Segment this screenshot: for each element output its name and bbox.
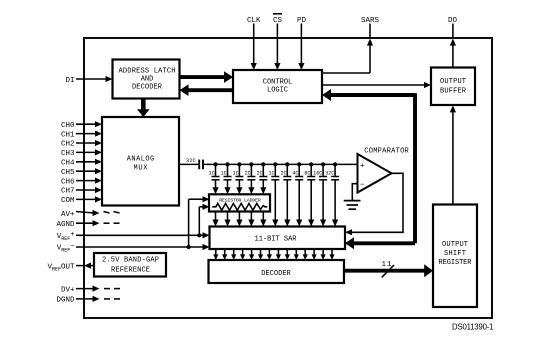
svg-text:AND: AND bbox=[141, 76, 154, 84]
node cap bus junction 3 bbox=[237, 162, 241, 166]
svg-text:CH2: CH2 bbox=[61, 141, 75, 149]
svg-text:CH7: CH7 bbox=[61, 188, 75, 196]
node cap bus junction 11 bbox=[333, 162, 337, 166]
wire SAR to DECODER bit 6 bbox=[258, 249, 263, 260]
bus CONTROL LOGIC / 11-BIT SAR bidirectional (thick) bbox=[322, 89, 415, 249]
node cap bus junction 8 bbox=[297, 162, 301, 166]
capacitor 4C (column 8) bbox=[292, 164, 303, 226]
pin CH4 bbox=[61, 159, 102, 168]
wire SAR to DECODER bit 3 bbox=[231, 249, 236, 260]
svg-text:LOGIC: LOGIC bbox=[267, 86, 288, 94]
svg-text:CONTROL: CONTROL bbox=[263, 78, 293, 86]
bus ADDRESS LATCH to ANALOG MUX (thick down arrow) bbox=[137, 99, 150, 118]
pin CH1 bbox=[61, 131, 102, 140]
svg-text:32C: 32C bbox=[186, 157, 197, 164]
svg-text:REFERENCE: REFERENCE bbox=[111, 267, 150, 275]
svg-text:2.5V BAND-GAP: 2.5V BAND-GAP bbox=[102, 257, 159, 265]
pin PD bbox=[297, 17, 307, 70]
svg-text:1C: 1C bbox=[268, 170, 274, 176]
svg-text:ANALOG: ANALOG bbox=[127, 156, 155, 164]
svg-text:DS011390-1: DS011390-1 bbox=[452, 323, 494, 332]
wire VREF- to resistor ladder upper input bbox=[189, 196, 210, 247]
capacitor 1C (column 2) bbox=[221, 164, 232, 194]
wire SAR to DECODER bit 5 bbox=[249, 249, 254, 260]
svg-text:2C: 2C bbox=[245, 170, 251, 176]
bus CONTROL LOGIC to ADDRESS LATCH (thick left arrow) bbox=[180, 84, 234, 96]
svg-text:AV+: AV+ bbox=[61, 211, 75, 219]
block DECODER bbox=[209, 260, 345, 283]
svg-text:MUX: MUX bbox=[134, 165, 149, 173]
svg-text:AGND: AGND bbox=[56, 221, 75, 229]
block RESISTOR LADDER bbox=[209, 194, 270, 211]
wire SAR to DECODER bit 1 bbox=[213, 249, 218, 260]
bus ADDRESS LATCH to CONTROL LOGIC (thick right arrow) bbox=[180, 71, 234, 83]
wire resistor ladder to SAR (column 3) bbox=[236, 212, 242, 227]
capacitor 8C (column 9) bbox=[304, 164, 315, 226]
pin SARS bbox=[361, 17, 380, 73]
wire OUTPUT SHIFT REGISTER to OUTPUT BUFFER bbox=[450, 105, 456, 204]
svg-text:−: − bbox=[360, 182, 365, 190]
pin VREF+ bbox=[57, 231, 210, 242]
pin DO bbox=[448, 17, 458, 68]
svg-text:4C: 4C bbox=[292, 170, 298, 176]
wire SAR to DECODER bit 4 bbox=[240, 249, 245, 260]
node cap bus junction 5 bbox=[261, 162, 265, 166]
svg-text:ADDRESS LATCH: ADDRESS LATCH bbox=[119, 68, 176, 76]
svg-text:CH3: CH3 bbox=[61, 150, 75, 158]
wire CONTROL LOGIC to OUTPUT BUFFER bbox=[322, 82, 431, 88]
wire resistor ladder to SAR (column 2) bbox=[224, 212, 230, 227]
capacitor 32C (series) bbox=[186, 157, 203, 169]
wire SAR to DECODER bit 2 bbox=[222, 249, 227, 260]
capacitor 2C (column 4) bbox=[245, 164, 256, 194]
svg-text:1C: 1C bbox=[233, 170, 239, 176]
block OUTPUT BUFFER bbox=[431, 68, 475, 106]
node cap bus junction 6 bbox=[273, 162, 277, 166]
wire comparator output to 11-BIT SAR bbox=[345, 173, 403, 235]
capacitor 32C (column 11) bbox=[325, 164, 339, 226]
svg-text:DI: DI bbox=[65, 77, 74, 85]
wire VREF+ to resistor ladder lower input bbox=[199, 204, 209, 236]
wire SAR to DECODER bit 10 bbox=[294, 249, 299, 260]
node cap bus junction 4 bbox=[249, 162, 253, 166]
pin VREF- bbox=[57, 243, 210, 254]
pin CH3 bbox=[61, 149, 102, 158]
svg-text:8C: 8C bbox=[304, 170, 310, 176]
pin COM bbox=[61, 196, 102, 205]
svg-text:CH0: CH0 bbox=[61, 122, 75, 130]
capacitor 16C (column 10) bbox=[313, 164, 327, 226]
svg-text:1C: 1C bbox=[209, 170, 215, 176]
svg-text:11-BIT SAR: 11-BIT SAR bbox=[255, 236, 298, 244]
capacitor 2C (column 7) bbox=[280, 164, 291, 226]
block OUTPUT SHIFT REGISTER bbox=[433, 205, 477, 308]
svg-text:REGISTER: REGISTER bbox=[439, 259, 473, 267]
block 2.5V BAND-GAP REFERENCE bbox=[94, 253, 166, 277]
svg-text:SHIFT: SHIFT bbox=[444, 250, 466, 258]
node cap bus junction 7 bbox=[285, 162, 289, 166]
svg-text:CH1: CH1 bbox=[61, 131, 75, 139]
svg-text:DV+: DV+ bbox=[61, 286, 75, 294]
svg-text:COM: COM bbox=[61, 197, 75, 205]
svg-text:DECODER: DECODER bbox=[261, 270, 291, 278]
block 11-BIT SAR bbox=[210, 227, 346, 250]
pin CLK bbox=[247, 17, 261, 70]
chip boundary bbox=[84, 38, 492, 318]
wire SAR to DECODER bit 8 bbox=[276, 249, 281, 260]
wire SAR to DECODER bit 14 bbox=[329, 249, 334, 260]
pin CH2 bbox=[61, 140, 102, 149]
wire capacitor bus bbox=[204, 163, 358, 165]
svg-text:DGND: DGND bbox=[56, 297, 75, 305]
svg-text:CH4: CH4 bbox=[61, 160, 75, 168]
pin CH0 bbox=[61, 121, 102, 130]
pin CH5 bbox=[61, 168, 102, 177]
pin DGND bbox=[56, 296, 120, 305]
pin AGND bbox=[56, 220, 119, 229]
node VREF- junction bbox=[187, 245, 191, 249]
node cap bus junction 2 bbox=[225, 162, 229, 166]
svg-text:OUTPUT: OUTPUT bbox=[440, 78, 466, 86]
pin VREFOUT bbox=[47, 263, 94, 273]
block CONTROL LOGIC bbox=[233, 70, 322, 103]
wire SAR to DECODER bit 7 bbox=[267, 249, 272, 260]
pin CS (active low) bbox=[273, 14, 283, 70]
svg-text:COMPARATOR: COMPARATOR bbox=[364, 147, 409, 155]
wire SAR to DECODER bit 13 bbox=[321, 249, 326, 260]
capacitor 1C (column 3) bbox=[233, 164, 244, 194]
node VREF+ junction bbox=[197, 233, 201, 237]
wire SAR to DECODER bit 12 bbox=[312, 249, 317, 260]
capacitor 1C (column 1) bbox=[209, 164, 220, 194]
wire ANALOG MUX output bbox=[179, 163, 198, 165]
wire CONTROL LOGIC to SARS bbox=[322, 72, 370, 74]
svg-text:BUFFER: BUFFER bbox=[440, 88, 467, 96]
wire SAR to DECODER bit 9 bbox=[285, 249, 290, 260]
pin CH7 bbox=[61, 187, 102, 196]
svg-text:CH6: CH6 bbox=[61, 178, 75, 186]
svg-text:32C: 32C bbox=[325, 170, 334, 176]
svg-text:1C: 1C bbox=[221, 170, 227, 176]
block ADDRESS LATCH AND DECODER bbox=[113, 60, 180, 99]
wire resistor ladder to SAR (column 5) bbox=[260, 212, 266, 227]
node cap bus junction 1 bbox=[213, 162, 217, 166]
comparator U1 bbox=[358, 147, 410, 192]
bus DECODER to OUTPUT SHIFT REGISTER (11) bbox=[344, 261, 433, 277]
node cap bus junction 10 bbox=[321, 162, 325, 166]
block ANALOG MUX bbox=[102, 117, 179, 206]
svg-text:DECODER: DECODER bbox=[132, 84, 163, 92]
capacitor 2C (column 5) bbox=[256, 164, 267, 194]
ground (comparator negative input) bbox=[344, 184, 361, 210]
pin DI bbox=[65, 76, 112, 85]
svg-text:2C: 2C bbox=[256, 170, 262, 176]
svg-text:+: + bbox=[360, 163, 365, 171]
pin AV+ bbox=[61, 210, 120, 219]
wire SAR to DECODER bit 11 bbox=[303, 249, 308, 260]
svg-text:16C: 16C bbox=[313, 170, 322, 176]
svg-text:VREFOUT: VREFOUT bbox=[47, 263, 75, 272]
pin CH6 bbox=[61, 178, 102, 187]
svg-text:CH5: CH5 bbox=[61, 169, 75, 177]
svg-text:2C: 2C bbox=[280, 170, 286, 176]
node cap bus junction 9 bbox=[309, 162, 313, 166]
svg-text:OUTPUT: OUTPUT bbox=[442, 241, 468, 249]
capacitor 1C (column 6) bbox=[268, 164, 279, 226]
wire resistor ladder to SAR (column 1) bbox=[212, 212, 218, 227]
wire resistor ladder to SAR (column 4) bbox=[248, 212, 254, 227]
pin DV+ bbox=[61, 286, 120, 295]
